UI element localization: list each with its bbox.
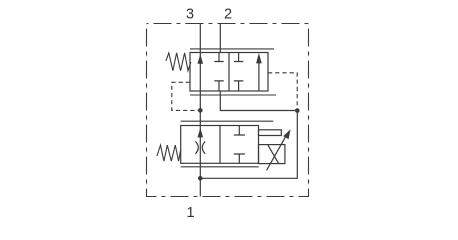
svg-text:2: 2 <box>224 7 232 23</box>
svg-text:3: 3 <box>186 7 194 23</box>
svg-text:1: 1 <box>186 205 194 221</box>
